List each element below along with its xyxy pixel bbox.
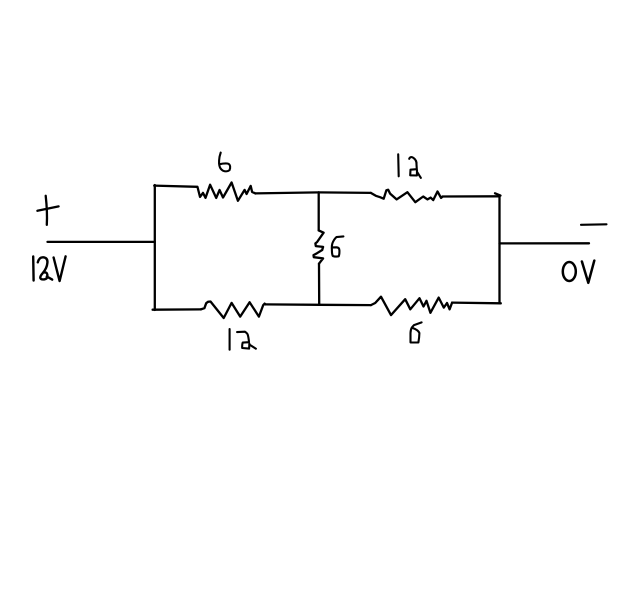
resistor 12 ohm (top-right) <box>371 190 443 202</box>
node: top middle junction <box>318 192 320 194</box>
label 6 (middle resistor) <box>332 236 344 256</box>
label 12 (top-right resistor) <box>398 154 421 178</box>
plus terminal symbol <box>37 196 58 225</box>
wire: top rail right segment <box>443 195 500 197</box>
resistor 6 ohm (top-left) <box>198 183 256 201</box>
label 6 (top-left resistor) <box>219 153 230 172</box>
label 6 (bottom-right resistor) <box>411 322 422 342</box>
wire: bottom rail middle segment <box>265 303 319 306</box>
label 0V <box>563 261 595 283</box>
label 12 (bottom-left resistor) <box>230 329 256 350</box>
resistor 12 ohm (bottom-left) <box>201 302 266 319</box>
wire: bottom rail segment to right resistor <box>320 304 371 307</box>
wire: input lead from + terminal to left bus <box>48 241 155 243</box>
minus terminal symbol <box>581 223 607 226</box>
wire: middle branch upper segment <box>318 192 320 230</box>
wire: bottom rail left segment <box>153 308 201 311</box>
wire: output lead to - terminal <box>500 242 590 244</box>
wire: top rail segment to right resistor <box>319 191 371 194</box>
resistor 6 ohm (bottom-right) <box>371 297 452 315</box>
wire: left vertical bus <box>154 185 156 310</box>
wire: middle branch lower segment <box>318 264 321 305</box>
wire: right vertical bus <box>498 196 500 303</box>
wire: corner tick at top-right junction <box>495 193 501 195</box>
wire: top rail middle segment <box>256 192 319 193</box>
label 12V (source voltage) <box>33 256 65 281</box>
wire: top rail left segment <box>154 186 197 187</box>
wire: bottom rail right segment <box>452 301 501 304</box>
resistor 6 ohm (middle vertical) <box>314 230 324 263</box>
node: bottom middle junction <box>319 304 321 306</box>
